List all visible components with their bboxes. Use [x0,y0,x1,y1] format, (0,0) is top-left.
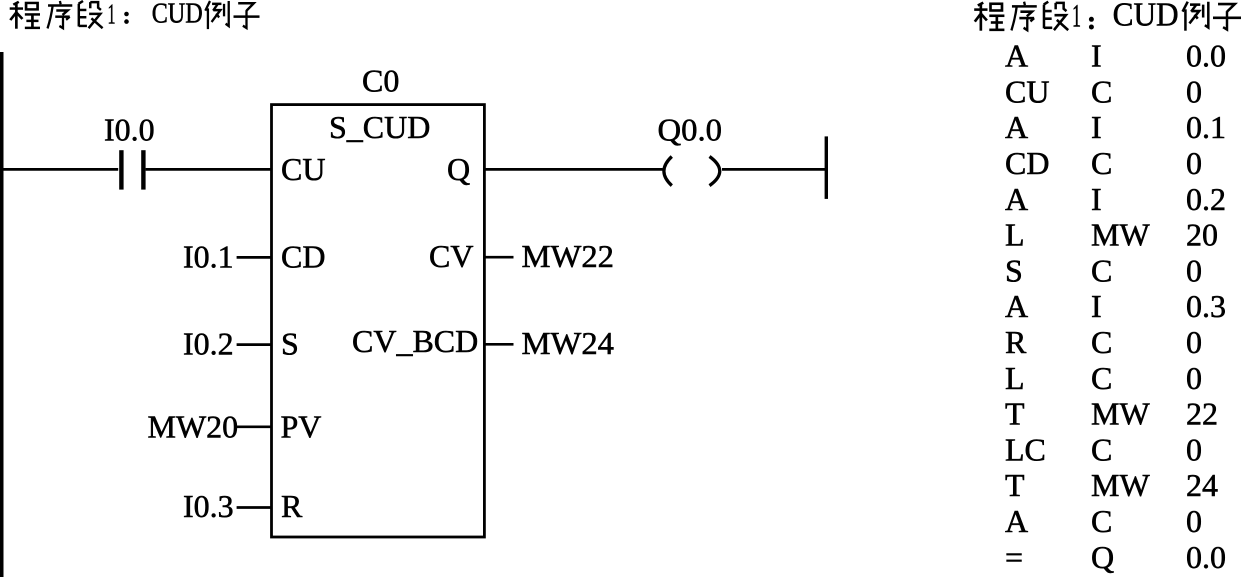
block S_CUD box [272,105,485,537]
svg-text:0: 0 [1186,360,1202,396]
svg-text:I0.1: I0.1 [183,239,234,275]
wire I0.3 to R [237,506,272,509]
wire MW20 to PV [237,425,272,428]
right rail bar [825,136,828,199]
STL row 9: R C 0 [1005,324,1202,360]
svg-text:CD: CD [1005,145,1049,181]
svg-text:C: C [1091,360,1112,396]
wire I0.2 to S [237,343,272,346]
svg-text:Q: Q [447,151,470,187]
STL row 5: A I 0.2 [1005,181,1226,217]
svg-text:0.1: 0.1 [1186,109,1226,145]
svg-text:1: 1 [1072,0,1081,34]
STL row 12: LC C 0 [1005,431,1202,467]
svg-text:=: = [1005,539,1023,575]
wire Q to coil [485,168,663,171]
svg-text:PV: PV [281,409,322,445]
svg-text:C: C [1091,324,1112,360]
svg-text:MW24: MW24 [522,325,615,361]
STL row 6: L MW 20 [1005,217,1218,253]
STL row 2: CU C 0 [1005,73,1202,109]
svg-text:Q: Q [1091,539,1114,575]
svg-text:R: R [1005,324,1027,360]
svg-text:20: 20 [1186,217,1218,253]
svg-text:24: 24 [1186,467,1218,503]
svg-text:0: 0 [1186,145,1202,181]
svg-text:0.0: 0.0 [1186,539,1226,575]
wire I0.1 to CD [237,256,272,259]
STL row 10: L C 0 [1005,360,1202,396]
contact I0.0 left bar [119,150,123,189]
svg-text:T: T [1005,467,1025,503]
STL row 7: S C 0 [1005,252,1202,288]
svg-text:Q0.0: Q0.0 [658,111,723,147]
svg-text:MW22: MW22 [522,238,615,274]
STL row 11: T MW 22 [1005,396,1218,432]
STL row 3: A I 0.1 [1005,109,1226,145]
STL row 8: A I 0.3 [1005,288,1226,324]
svg-text:0.2: 0.2 [1186,181,1226,217]
svg-text:LC: LC [1005,431,1046,467]
svg-text:R: R [281,488,303,524]
svg-text:I0.2: I0.2 [183,326,234,362]
svg-text:MW: MW [1091,217,1150,253]
svg-text:I: I [1091,109,1102,145]
coil right paren [710,157,720,186]
wire CV_BCD to MW24 [485,343,514,346]
svg-text:22: 22 [1186,396,1218,432]
svg-text:L: L [1005,217,1025,253]
svg-text:I: I [1091,288,1102,324]
svg-text:CUD: CUD [1113,0,1179,34]
svg-text:C0: C0 [362,63,399,99]
svg-text:S: S [281,326,299,362]
svg-text:CU: CU [1005,73,1049,109]
svg-text:C: C [1091,73,1112,109]
STL row 1: A I 0.0 [1005,38,1226,74]
svg-text:A: A [1005,181,1028,217]
svg-text:I0.3: I0.3 [183,488,234,524]
svg-text:I0.0: I0.0 [104,111,155,147]
svg-text:A: A [1005,38,1028,74]
svg-text:T: T [1005,396,1025,432]
wire CV to MW22 [485,256,514,259]
svg-text:A: A [1005,503,1028,539]
wire contact to block CU [146,168,272,171]
svg-text:0: 0 [1186,324,1202,360]
svg-text:C: C [1091,503,1112,539]
coil left paren [664,157,672,186]
STL row 13: T MW 24 [1005,467,1218,503]
svg-text:A: A [1005,288,1028,324]
title right: 程序段1：CUD例子 [974,0,1241,34]
svg-text:C: C [1091,145,1112,181]
svg-text:S_CUD: S_CUD [329,109,430,145]
svg-text:I: I [1091,38,1102,74]
svg-text:1: 1 [108,0,116,31]
svg-text:0.3: 0.3 [1186,288,1226,324]
svg-text:CU: CU [281,151,325,187]
svg-text:CD: CD [281,239,325,275]
title left: 程序段1：CUD例子 [10,0,260,31]
svg-text:0: 0 [1186,431,1202,467]
svg-text:CV_BCD: CV_BCD [352,323,478,359]
STL row 15: = Q 0.0 [1005,539,1226,575]
svg-text:I: I [1091,181,1102,217]
wire coil to right rail [722,168,826,171]
left power rail [0,52,4,577]
svg-text:C: C [1091,431,1112,467]
svg-text:CUD: CUD [152,0,203,29]
svg-text:0: 0 [1186,503,1202,539]
svg-text:MW: MW [1091,396,1150,432]
contact I0.0 right bar [141,150,145,189]
svg-text:0.0: 0.0 [1186,38,1226,74]
svg-text:L: L [1005,360,1025,396]
STL row 14: A C 0 [1005,503,1202,539]
svg-text:MW: MW [1091,467,1150,503]
svg-text:0: 0 [1186,252,1202,288]
svg-text:0: 0 [1186,73,1202,109]
wire rail to contact I0.0 [4,168,119,171]
svg-text:S: S [1005,252,1023,288]
svg-text:A: A [1005,109,1028,145]
svg-text:C: C [1091,252,1112,288]
svg-text:MW20: MW20 [148,409,239,445]
STL row 4: CD C 0 [1005,145,1202,181]
svg-text:CV: CV [429,238,473,274]
